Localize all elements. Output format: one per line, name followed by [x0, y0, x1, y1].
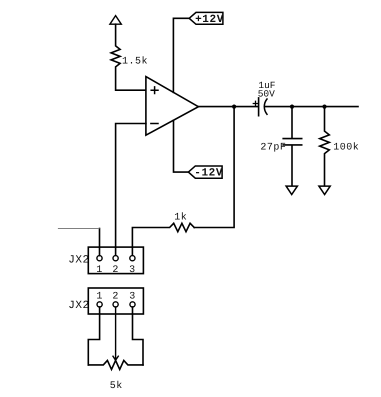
svg-text:JX2: JX2 — [68, 300, 89, 312]
svg-text:1k: 1k — [174, 212, 187, 224]
svg-text:3: 3 — [129, 291, 136, 302]
svg-text:50V: 50V — [258, 88, 275, 99]
svg-text:2: 2 — [112, 291, 119, 302]
svg-text:1: 1 — [96, 265, 103, 276]
svg-text:5k: 5k — [110, 380, 123, 392]
svg-text:2: 2 — [112, 265, 119, 276]
svg-text:+12V: +12V — [195, 14, 224, 26]
svg-text:3: 3 — [129, 265, 136, 276]
svg-text:-12V: -12V — [194, 168, 223, 180]
svg-text:27pF: 27pF — [260, 142, 286, 153]
svg-text:1.5k: 1.5k — [122, 56, 148, 68]
svg-text:JX2: JX2 — [68, 254, 89, 266]
svg-text:100k: 100k — [333, 141, 359, 153]
svg-text:1: 1 — [96, 291, 103, 302]
